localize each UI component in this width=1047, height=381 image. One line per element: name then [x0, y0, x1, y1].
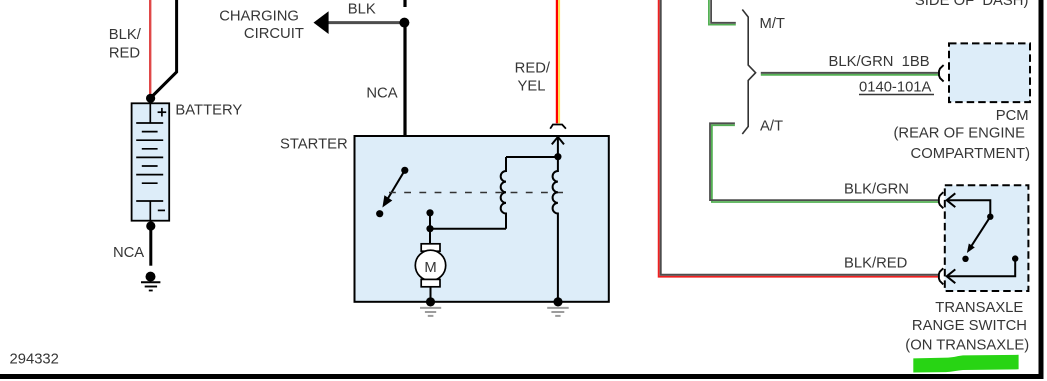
svg-text:BLK/: BLK/	[109, 27, 142, 43]
svg-text:BLK/RED: BLK/RED	[844, 256, 907, 272]
svg-text:STARTER: STARTER	[280, 137, 348, 153]
svg-text:BLK/GRN 1BB: BLK/GRN 1BB	[829, 54, 930, 70]
svg-text:A/T: A/T	[760, 119, 783, 135]
svg-text:PCM: PCM	[996, 108, 1029, 124]
svg-text:M/T: M/T	[760, 16, 785, 32]
svg-text:YEL: YEL	[518, 79, 546, 95]
svg-text:M: M	[424, 260, 436, 276]
svg-text:SIDE OF DASH): SIDE OF DASH)	[915, 0, 1029, 9]
svg-text:CIRCUIT: CIRCUIT	[244, 26, 304, 42]
svg-text:RED/: RED/	[515, 60, 551, 76]
svg-text:TRANSAXLE: TRANSAXLE	[935, 300, 1023, 316]
svg-text:(REAR OF ENGINE: (REAR OF ENGINE	[893, 126, 1025, 142]
svg-text:294332: 294332	[10, 351, 59, 367]
svg-text:RANGE SWITCH: RANGE SWITCH	[912, 318, 1027, 334]
svg-text:NCA: NCA	[366, 86, 397, 102]
svg-text:COMPARTMENT): COMPARTMENT)	[911, 146, 1031, 162]
svg-text:BLK/GRN: BLK/GRN	[844, 181, 909, 197]
svg-text:BATTERY: BATTERY	[175, 103, 242, 119]
svg-text:NCA: NCA	[113, 245, 144, 261]
svg-text:CHARGING: CHARGING	[219, 9, 299, 25]
svg-text:0140-101A: 0140-101A	[859, 80, 932, 96]
svg-text:RED: RED	[109, 46, 140, 62]
svg-text:(ON TRANSAXLE): (ON TRANSAXLE)	[905, 338, 1029, 354]
svg-text:BLK: BLK	[348, 2, 376, 18]
